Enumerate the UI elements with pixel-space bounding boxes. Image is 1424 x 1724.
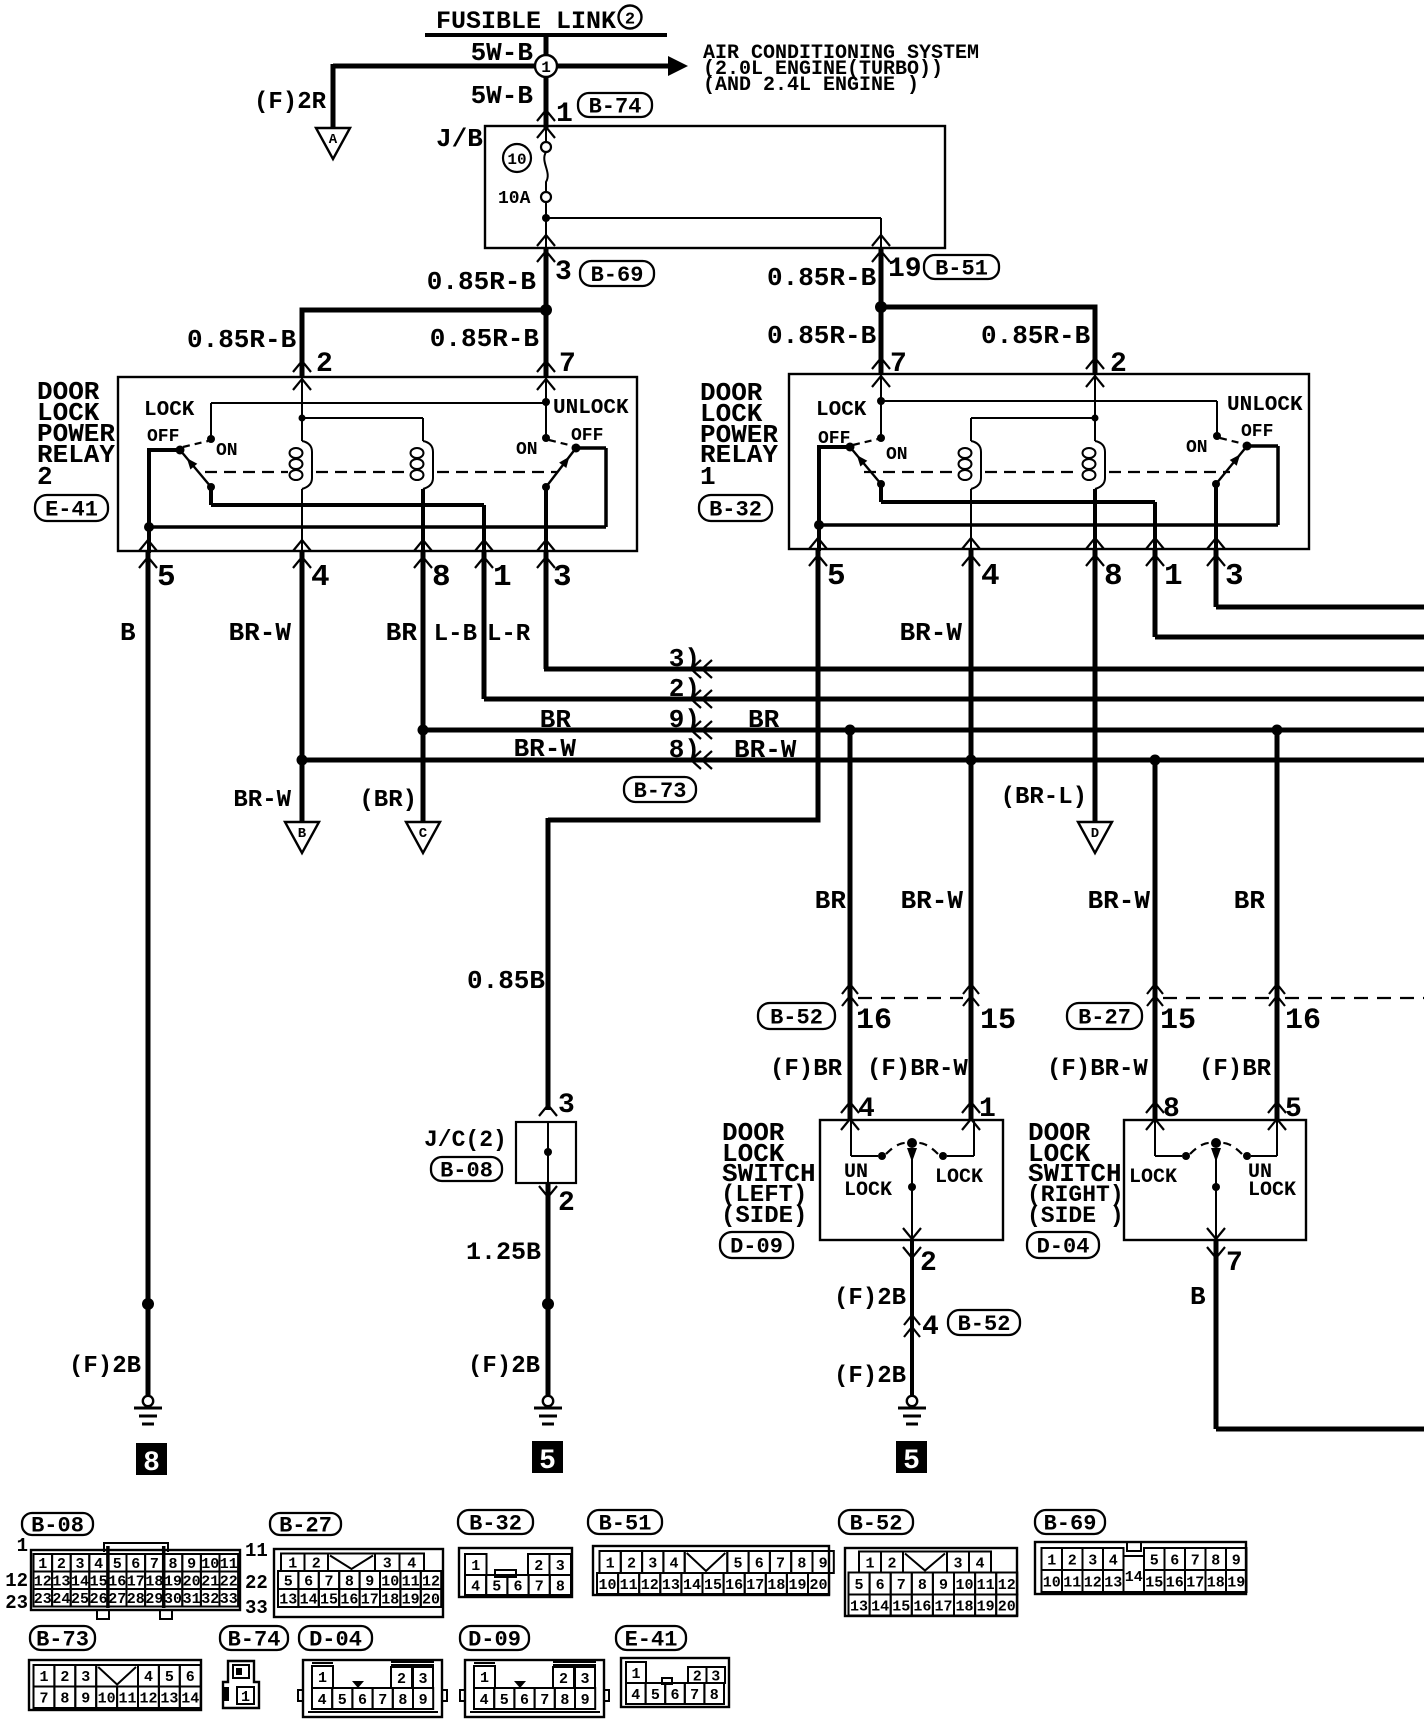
wire branch left to fuse link A bbox=[333, 64, 546, 69]
svg-text:9: 9 bbox=[939, 1577, 948, 1594]
svg-text:5W-B: 5W-B bbox=[471, 81, 534, 111]
svg-text:5: 5 bbox=[733, 1555, 742, 1572]
wire 0.85R-B from B-51 down bbox=[879, 248, 884, 307]
relay2 pin7 wire to ON contact bbox=[545, 377, 547, 438]
svg-text:7: 7 bbox=[39, 1691, 48, 1708]
svg-text:5: 5 bbox=[500, 1692, 509, 1709]
svg-text:LOCK: LOCK bbox=[144, 399, 195, 422]
ground G1 bbox=[134, 1396, 162, 1424]
svg-text:(F)BR: (F)BR bbox=[1199, 1056, 1272, 1083]
svg-text:2): 2) bbox=[669, 674, 700, 704]
svg-text:BR: BR bbox=[748, 705, 780, 735]
connector label D-09 table bbox=[460, 1626, 529, 1650]
svg-text:(F)2R: (F)2R bbox=[254, 89, 327, 116]
relay2 left switch dashed arm bbox=[183, 441, 208, 447]
switch right lock contact bbox=[1182, 1152, 1190, 1160]
node splice on black wire left bbox=[142, 1298, 154, 1310]
svg-text:10: 10 bbox=[98, 1691, 116, 1708]
svg-text:7: 7 bbox=[535, 1578, 544, 1595]
connector crossing chevrons B-52 pin4 bbox=[904, 1315, 920, 1325]
wire BR to door lock switch left pin4 bbox=[848, 730, 853, 1120]
svg-text:20: 20 bbox=[810, 1577, 828, 1594]
connector D-04 pinout bbox=[298, 1660, 447, 1717]
svg-text:1: 1 bbox=[493, 560, 512, 595]
svg-text:L-B: L-B bbox=[434, 621, 477, 648]
connector label B-73 table bbox=[30, 1626, 95, 1650]
svg-text:B-74: B-74 bbox=[228, 1627, 281, 1652]
svg-text:12: 12 bbox=[5, 1570, 28, 1592]
connector label B-32 bbox=[699, 495, 772, 521]
node BR-W junction relay2 pin4 bbox=[297, 755, 308, 766]
svg-text:0.85B: 0.85B bbox=[467, 966, 545, 996]
switch entry chevrons pin5 bbox=[1268, 1102, 1286, 1113]
svg-text:15: 15 bbox=[1145, 1574, 1163, 1591]
svg-text:6: 6 bbox=[358, 1692, 367, 1709]
svg-text:20: 20 bbox=[422, 1591, 440, 1608]
svg-text:5: 5 bbox=[338, 1692, 347, 1709]
node fuse output junction bbox=[542, 214, 550, 222]
wire BR-W from relay2 pin4 bbox=[300, 551, 305, 822]
svg-text:2: 2 bbox=[559, 1671, 568, 1688]
relay1 bottom pin labels 5 4 8 1 3 bbox=[827, 559, 1244, 594]
svg-text:ON: ON bbox=[516, 440, 538, 460]
svg-text:12: 12 bbox=[1084, 1574, 1102, 1591]
svg-text:3: 3 bbox=[558, 1090, 575, 1121]
svg-text:(SIDE ): (SIDE ) bbox=[1027, 1203, 1124, 1229]
svg-text:UNLOCK: UNLOCK bbox=[553, 397, 629, 420]
relay 2 name text bbox=[37, 377, 115, 492]
svg-text:(F)BR-W: (F)BR-W bbox=[1047, 1056, 1148, 1083]
svg-text:9): 9) bbox=[669, 705, 700, 735]
connector chevrons BR-W at B-27 pin15 bbox=[1147, 984, 1163, 994]
node BR junction door switch left bbox=[845, 725, 856, 736]
svg-text:5: 5 bbox=[157, 560, 176, 595]
svg-text:8: 8 bbox=[1104, 559, 1123, 594]
svg-text:15: 15 bbox=[704, 1577, 722, 1594]
svg-text:9: 9 bbox=[1232, 1552, 1241, 1569]
door lock switch right name text bbox=[1027, 1118, 1124, 1229]
door lock switch left name text bbox=[721, 1118, 816, 1230]
relay2 right switch arm bbox=[546, 448, 576, 487]
svg-text:1: 1 bbox=[480, 1670, 489, 1687]
connector B-73 chevrons line 3 bbox=[691, 660, 701, 678]
svg-text:B-32: B-32 bbox=[709, 497, 762, 522]
svg-text:16: 16 bbox=[340, 1591, 358, 1608]
svg-text:10: 10 bbox=[956, 1577, 974, 1594]
relay1 wire lower contact to pin1 bbox=[879, 484, 883, 502]
svg-text:BR: BR bbox=[386, 618, 418, 648]
node BR-W junction relay1 pin4 bbox=[966, 755, 977, 766]
J/C internal wire and node bbox=[547, 1122, 549, 1183]
svg-text:B-69: B-69 bbox=[591, 263, 644, 288]
connector B-08 pinout bbox=[31, 1543, 240, 1619]
wire BR from relay2 pin8 bbox=[421, 551, 426, 822]
svg-text:10: 10 bbox=[201, 1556, 219, 1573]
svg-text:4: 4 bbox=[670, 1555, 679, 1572]
svg-text:B-73: B-73 bbox=[634, 779, 687, 804]
svg-text:17: 17 bbox=[127, 1574, 145, 1591]
svg-text:24: 24 bbox=[52, 1591, 70, 1608]
relay1 left switch dashed arm bbox=[853, 439, 878, 445]
relay1 right switch ON contact bbox=[1213, 432, 1221, 440]
svg-text:3: 3 bbox=[648, 1555, 657, 1572]
relay2 common bus to right switch bbox=[149, 525, 606, 529]
relay1 bottom pin chevrons bbox=[809, 538, 827, 549]
svg-text:22: 22 bbox=[220, 1574, 238, 1591]
wire BR-L from relay1 pin8 bbox=[1093, 549, 1098, 822]
svg-text:25: 25 bbox=[71, 1591, 89, 1608]
svg-text:31: 31 bbox=[183, 1591, 201, 1608]
joint connector J/C(2) box bbox=[516, 1122, 576, 1183]
svg-text:14: 14 bbox=[683, 1577, 701, 1594]
svg-text:10A: 10A bbox=[498, 189, 531, 209]
svg-text:(AND 2.4L ENGINE ): (AND 2.4L ENGINE ) bbox=[703, 74, 919, 97]
svg-text:9: 9 bbox=[187, 1556, 196, 1573]
svg-text:7: 7 bbox=[890, 349, 907, 380]
svg-text:11: 11 bbox=[620, 1577, 638, 1594]
svg-text:BR: BR bbox=[1234, 886, 1266, 916]
svg-text:BR-W: BR-W bbox=[900, 618, 963, 648]
svg-text:BR-W: BR-W bbox=[233, 787, 291, 814]
svg-text:(F)2B: (F)2B bbox=[468, 1353, 540, 1380]
svg-text:29: 29 bbox=[145, 1591, 163, 1608]
relay2 bottom pin chevrons bbox=[139, 540, 157, 551]
connector label D-04 table bbox=[299, 1626, 372, 1650]
relay1 left switch lower contact bbox=[877, 480, 885, 488]
svg-text:D: D bbox=[1091, 826, 1099, 842]
ground number box 5 right bbox=[896, 1441, 927, 1473]
svg-text:OFF: OFF bbox=[1241, 422, 1273, 442]
relay1 node lock junction bbox=[877, 397, 885, 405]
svg-text:13: 13 bbox=[160, 1691, 178, 1708]
svg-text:5: 5 bbox=[284, 1573, 293, 1590]
svg-text:1: 1 bbox=[17, 1535, 28, 1557]
svg-text:8): 8) bbox=[669, 735, 700, 765]
relay2 right switch ON contact bbox=[542, 434, 550, 442]
connector chevrons J/B left exit bbox=[537, 235, 555, 246]
switch right dashed arms bbox=[1190, 1143, 1211, 1154]
svg-text:D-09: D-09 bbox=[468, 1627, 521, 1652]
relay1 node common junction bbox=[814, 520, 824, 530]
svg-text:12: 12 bbox=[139, 1691, 157, 1708]
svg-text:11: 11 bbox=[245, 1540, 268, 1562]
svg-text:8: 8 bbox=[1211, 1552, 1220, 1569]
wire 0.85R-B to relay2 pin7 bbox=[544, 310, 549, 377]
svg-text:7: 7 bbox=[1191, 1552, 1200, 1569]
relay1 pin2 entry chevrons bbox=[1086, 358, 1104, 369]
svg-text:2: 2 bbox=[37, 462, 53, 492]
svg-text:5: 5 bbox=[113, 1556, 122, 1573]
connector B-73 pinout bbox=[29, 1660, 201, 1710]
connector label B-08 at J/C bbox=[431, 1157, 502, 1181]
svg-text:B-08: B-08 bbox=[440, 1158, 493, 1183]
relay1 right switch pivot bbox=[1243, 442, 1252, 451]
svg-text:1: 1 bbox=[318, 1670, 327, 1687]
svg-text:OFF: OFF bbox=[147, 427, 179, 447]
relay2 left switch common wire bbox=[149, 448, 180, 452]
svg-text:12: 12 bbox=[422, 1573, 440, 1590]
svg-text:13: 13 bbox=[279, 1591, 297, 1608]
connector label B-73 bbox=[624, 777, 696, 802]
svg-text:A: A bbox=[329, 132, 338, 148]
svg-text:B-51: B-51 bbox=[935, 256, 988, 281]
relay2 left switch arm bbox=[180, 450, 211, 487]
svg-text:LOCK: LOCK bbox=[816, 399, 867, 422]
relay2 coil tie wire bbox=[302, 417, 423, 419]
svg-text:2: 2 bbox=[57, 1556, 66, 1573]
ground G3 bbox=[898, 1396, 926, 1424]
connector B-32 pinout bbox=[459, 1548, 572, 1597]
svg-text:C: C bbox=[419, 826, 428, 842]
connector B-73 chevrons line 9 bbox=[691, 721, 701, 739]
svg-text:19: 19 bbox=[164, 1574, 182, 1591]
node 1 junction circle bbox=[535, 55, 557, 77]
relay1 coil 1 bbox=[970, 418, 972, 441]
svg-text:3: 3 bbox=[556, 1558, 565, 1575]
switch right internal pin8 wire bbox=[1154, 1120, 1156, 1156]
svg-text:8: 8 bbox=[918, 1577, 927, 1594]
connector label B-74 bbox=[578, 93, 652, 117]
svg-text:4: 4 bbox=[922, 1312, 939, 1343]
chevron into J/C bbox=[539, 1105, 557, 1116]
switch left lock contact bbox=[939, 1152, 947, 1160]
connector label E-41 bbox=[35, 495, 108, 521]
wire relay1 pin3 exit right bbox=[1214, 549, 1219, 607]
svg-text:2: 2 bbox=[1068, 1552, 1077, 1569]
door lock switch left box bbox=[820, 1120, 1003, 1240]
svg-text:5: 5 bbox=[1150, 1552, 1159, 1569]
wire inside J/B to right exit bbox=[546, 217, 881, 219]
svg-text:ON: ON bbox=[1186, 438, 1208, 458]
wire line BR pin9 through B-73 bbox=[423, 728, 1424, 733]
relay2 node unlock junction bbox=[542, 398, 550, 406]
svg-text:8: 8 bbox=[710, 1687, 719, 1704]
switch left dashed arms bbox=[886, 1143, 907, 1154]
svg-text:1: 1 bbox=[38, 1556, 47, 1573]
ground number box 5 center bbox=[532, 1441, 563, 1473]
off-page reference triangle B bbox=[285, 822, 319, 853]
svg-text:ON: ON bbox=[216, 441, 238, 461]
svg-text:18: 18 bbox=[145, 1574, 163, 1591]
svg-text:14: 14 bbox=[300, 1591, 318, 1608]
svg-text:16: 16 bbox=[913, 1598, 931, 1615]
connector label B-69 table bbox=[1035, 1510, 1105, 1534]
svg-text:3: 3 bbox=[418, 1671, 427, 1688]
relay2 pin7 entry chevrons bbox=[537, 361, 555, 372]
switch left internal pin4 wire bbox=[850, 1120, 852, 1156]
svg-text:ON: ON bbox=[886, 445, 908, 465]
svg-text:8: 8 bbox=[432, 560, 451, 595]
connector label B-52 crossing bbox=[948, 1310, 1020, 1335]
relay1 pin7 entry chevrons bbox=[872, 358, 890, 369]
svg-text:1: 1 bbox=[241, 1689, 250, 1706]
wire BR to door lock switch right pin5 bbox=[1275, 730, 1280, 1120]
svg-text:7: 7 bbox=[540, 1692, 549, 1709]
svg-text:10: 10 bbox=[507, 151, 526, 169]
svg-text:4: 4 bbox=[975, 1555, 984, 1572]
svg-text:(BR): (BR) bbox=[359, 787, 417, 814]
relay1 right switch arm bbox=[1216, 446, 1247, 484]
switch right internal pin5 wire bbox=[1276, 1120, 1278, 1156]
svg-text:L-R: L-R bbox=[487, 621, 531, 648]
svg-text:B: B bbox=[120, 618, 136, 648]
air conditioning system note bbox=[703, 42, 979, 97]
connector B-52 B-27 dashed line bbox=[858, 997, 963, 999]
svg-text:15: 15 bbox=[980, 1004, 1016, 1038]
svg-text:4: 4 bbox=[471, 1578, 480, 1595]
svg-text:11: 11 bbox=[1063, 1574, 1081, 1591]
svg-text:1: 1 bbox=[541, 59, 551, 77]
svg-text:FUSIBLE LINK: FUSIBLE LINK bbox=[436, 7, 616, 36]
switch left common post bbox=[907, 1138, 917, 1148]
svg-text:27: 27 bbox=[108, 1591, 126, 1608]
node BR junction relay2 pin8 bbox=[418, 725, 429, 736]
svg-text:20: 20 bbox=[183, 1574, 201, 1591]
svg-text:23: 23 bbox=[34, 1591, 52, 1608]
svg-text:9: 9 bbox=[581, 1692, 590, 1709]
relay2 node common junction bbox=[144, 522, 154, 532]
svg-text:8: 8 bbox=[797, 1555, 806, 1572]
relay1 left switch ON contact bbox=[877, 434, 885, 442]
node left feed junction bbox=[540, 304, 552, 316]
wire 0.85R-B branch to relay2 pin2 bbox=[300, 308, 547, 313]
svg-text:22: 22 bbox=[245, 1572, 268, 1594]
svg-text:13: 13 bbox=[1104, 1574, 1122, 1591]
svg-text:14: 14 bbox=[1125, 1569, 1143, 1586]
relay2 right switch lower contact bbox=[542, 483, 550, 491]
svg-text:5: 5 bbox=[903, 1446, 920, 1477]
relay2 wire lower contact to pin1 bbox=[209, 487, 213, 505]
fuse element 10A bbox=[541, 128, 551, 248]
svg-text:1: 1 bbox=[288, 1556, 297, 1573]
svg-text:6: 6 bbox=[513, 1578, 522, 1595]
connector label D-04 bbox=[1027, 1232, 1099, 1258]
svg-text:3: 3 bbox=[1088, 1552, 1097, 1569]
svg-text:B-74: B-74 bbox=[589, 94, 642, 119]
svg-text:4: 4 bbox=[1109, 1552, 1118, 1569]
svg-text:12: 12 bbox=[998, 1577, 1016, 1594]
switch left pin2 exit chevrons bbox=[903, 1228, 921, 1239]
wire relay1 pin1 exit right bbox=[1153, 549, 1158, 637]
svg-text:8: 8 bbox=[560, 1692, 569, 1709]
connector label B-74 table bbox=[220, 1626, 288, 1650]
svg-text:18: 18 bbox=[381, 1591, 399, 1608]
svg-text:7: 7 bbox=[776, 1555, 785, 1572]
wire relay1 pin5 to junction connector bbox=[816, 549, 821, 820]
svg-text:B-69: B-69 bbox=[1044, 1511, 1097, 1536]
connector B-27 pinout bbox=[274, 1549, 443, 1617]
svg-text:1: 1 bbox=[606, 1555, 615, 1572]
svg-text:6: 6 bbox=[1170, 1552, 1179, 1569]
relay2 coil 1 bbox=[299, 415, 306, 422]
svg-text:8: 8 bbox=[143, 1448, 160, 1479]
relay1 right switch dashed arm bbox=[1220, 438, 1244, 444]
svg-text:19: 19 bbox=[788, 1577, 806, 1594]
svg-text:15: 15 bbox=[320, 1591, 338, 1608]
svg-text:2: 2 bbox=[60, 1669, 69, 1686]
relay1 coil tie wire bbox=[971, 417, 1095, 419]
svg-text:2: 2 bbox=[312, 1556, 321, 1573]
svg-text:9: 9 bbox=[81, 1691, 90, 1708]
connector B-73 chevrons line 2 bbox=[691, 690, 701, 708]
connector B-74 pinout bbox=[223, 1661, 259, 1708]
svg-text:19: 19 bbox=[977, 1598, 995, 1615]
svg-text:3: 3 bbox=[580, 1671, 589, 1688]
svg-text:7: 7 bbox=[1226, 1248, 1243, 1279]
svg-text:13: 13 bbox=[850, 1598, 868, 1615]
svg-text:12: 12 bbox=[641, 1577, 659, 1594]
svg-text:(F)2B: (F)2B bbox=[834, 1285, 906, 1312]
svg-text:(F)BR-W: (F)BR-W bbox=[867, 1056, 968, 1083]
svg-text:6: 6 bbox=[670, 1687, 679, 1704]
svg-text:1: 1 bbox=[1164, 559, 1183, 594]
svg-text:2: 2 bbox=[316, 349, 333, 380]
svg-text:6: 6 bbox=[520, 1692, 529, 1709]
svg-text:8: 8 bbox=[398, 1692, 407, 1709]
svg-text:3: 3 bbox=[555, 257, 572, 288]
switch right common post bbox=[1211, 1138, 1221, 1148]
wire 5W-B vertical from fusible link bbox=[544, 35, 549, 128]
svg-text:4: 4 bbox=[318, 1692, 327, 1709]
ground number box 8 bbox=[136, 1443, 167, 1475]
fuse 10 circled number bbox=[503, 144, 531, 172]
relay2 left switch lower contact bbox=[207, 483, 215, 491]
svg-text:4: 4 bbox=[94, 1556, 103, 1573]
svg-text:B-32: B-32 bbox=[469, 1511, 522, 1536]
relay1 pin7 wire to ON contact bbox=[880, 374, 882, 438]
wire 1.25B from J/C down bbox=[546, 1183, 551, 1396]
fusible link 2 label bbox=[436, 6, 642, 37]
connector label B-27 table bbox=[270, 1513, 341, 1535]
svg-text:6: 6 bbox=[186, 1669, 195, 1686]
svg-text:6: 6 bbox=[304, 1573, 313, 1590]
svg-text:2: 2 bbox=[558, 1188, 575, 1219]
svg-text:(F)BR: (F)BR bbox=[770, 1056, 843, 1083]
svg-text:33: 33 bbox=[220, 1591, 238, 1608]
svg-text:1: 1 bbox=[700, 462, 716, 492]
wire L-B from relay2 pin1 bbox=[482, 551, 487, 699]
svg-text:8: 8 bbox=[556, 1578, 565, 1595]
svg-text:BR: BR bbox=[815, 886, 847, 916]
svg-text:B-52: B-52 bbox=[770, 1005, 823, 1030]
svg-text:18: 18 bbox=[767, 1577, 785, 1594]
svg-text:33: 33 bbox=[245, 1597, 268, 1619]
connector chevrons BR at B-27 pin16 bbox=[1269, 984, 1285, 994]
relay2 bottom pin labels 5 4 8 1 3 bbox=[157, 560, 572, 595]
chevron out of J/C bbox=[539, 1186, 557, 1197]
svg-text:B-73: B-73 bbox=[36, 1627, 89, 1652]
svg-text:5: 5 bbox=[539, 1446, 556, 1477]
svg-text:5: 5 bbox=[651, 1687, 660, 1704]
wire BR-W from relay1 pin4 bbox=[969, 549, 974, 1120]
svg-text:0.85R-B: 0.85R-B bbox=[767, 263, 877, 293]
svg-text:(F)2B: (F)2B bbox=[834, 1363, 906, 1390]
svg-text:BR-W: BR-W bbox=[229, 618, 292, 648]
svg-text:17: 17 bbox=[361, 1591, 379, 1608]
svg-text:2: 2 bbox=[920, 1248, 937, 1279]
relay2 wire lower contact to pin3 bbox=[544, 487, 548, 551]
svg-text:3: 3 bbox=[1225, 559, 1244, 594]
junction block J/B box bbox=[485, 126, 945, 248]
svg-text:LOCK: LOCK bbox=[1129, 1166, 1177, 1189]
svg-text:16: 16 bbox=[725, 1577, 743, 1594]
svg-text:7: 7 bbox=[897, 1577, 906, 1594]
switch right unlock contact bbox=[1243, 1152, 1251, 1160]
door lock switch right box bbox=[1124, 1120, 1306, 1240]
svg-text:(SIDE): (SIDE) bbox=[721, 1203, 807, 1230]
svg-text:B-08: B-08 bbox=[31, 1513, 84, 1538]
fusible link bus bar bbox=[425, 33, 667, 37]
